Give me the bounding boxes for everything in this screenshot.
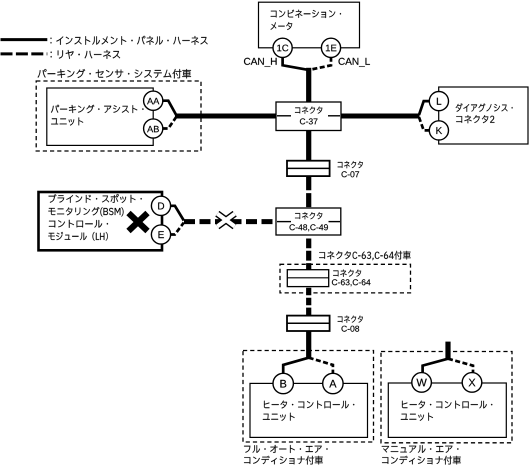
wire: C-48,C-49 to C-63,C-64 (thick dashed trunk) xyxy=(306,239,311,271)
legend line: rear harness (thick dashed) xyxy=(1,52,48,55)
wire: branch to pin B (solid thin) xyxy=(283,358,309,374)
wire: branch from pin E (dashed thin) xyxy=(170,223,183,235)
connector C-07 divider xyxy=(287,167,330,169)
connector C-37 label line 2 xyxy=(300,118,318,124)
connector C-08 box xyxy=(287,316,330,331)
heater control unit (full auto) label line 1 xyxy=(264,401,354,409)
connector C-37 box xyxy=(276,102,341,131)
combination meter label line 1 xyxy=(271,10,341,18)
pin circle AB xyxy=(144,119,163,138)
label: with manual air conditioner line 2 xyxy=(382,456,461,465)
heater control unit box (manual) xyxy=(388,383,506,437)
wire: branch to pin L (solid thin) xyxy=(419,101,430,115)
combination meter box xyxy=(259,2,360,48)
connector C-48,C-49 label line 1 xyxy=(295,212,322,219)
parking system dashed enclosure xyxy=(36,81,201,151)
wire: C-37 to C-07 (thick solid trunk) xyxy=(306,130,311,161)
wire stub inside C-37 (left) xyxy=(277,115,291,117)
BSM label line 2 xyxy=(48,207,123,216)
connector C-48,C-49 box xyxy=(276,208,341,235)
connector C-63,C-64 label line 2 xyxy=(332,279,371,286)
diagnosis connector label line 1 xyxy=(456,103,513,111)
parking assist unit box xyxy=(47,88,153,145)
wire: C-63,C-64 to C-08 (thick dashed trunk) xyxy=(306,288,311,316)
label: with parking sensor system xyxy=(38,69,191,78)
wire: CAN_L branch from pin 1E (dashed thin) xyxy=(310,57,331,70)
label: with manual air conditioner line 1 xyxy=(382,445,459,453)
connector C-63,C-64 divider xyxy=(287,277,328,279)
wire: branch from pin AA (solid thin) xyxy=(163,101,177,115)
pin label E xyxy=(159,231,164,238)
pin label AA xyxy=(147,98,159,104)
wire: stub to manual heater control split (thick solid) xyxy=(445,342,450,360)
wire stub inside C-48,C-49 (right) xyxy=(329,221,341,223)
connector C-08 divider xyxy=(287,322,330,324)
heater control unit (full auto) label line 2 xyxy=(263,413,295,421)
wire stub inside C-37 (right) xyxy=(328,115,340,117)
pin circle L xyxy=(429,92,448,111)
label: with full auto air conditioner line 2 xyxy=(244,456,323,465)
legend text: rear harness xyxy=(51,50,121,59)
connector C-48,C-49 label line 2 xyxy=(290,224,328,231)
connector C-07 label line 2 xyxy=(342,171,360,177)
wire: branch to pin W (solid thin) xyxy=(423,359,448,373)
no-connect mark X on BSM wire (white core) xyxy=(217,214,234,227)
connector C-63,C-64 label line 1 xyxy=(333,270,361,277)
pin label 1C xyxy=(277,45,288,52)
pin circle AA xyxy=(144,91,163,110)
pin circle 1E xyxy=(321,38,340,57)
manual A/C dashed enclosure xyxy=(381,352,512,443)
label CAN_L xyxy=(339,58,370,67)
wire: C-37 to diagnosis connector 2 (thick solid) xyxy=(341,114,420,119)
wire: branch to pin X (dashed thin) xyxy=(448,359,473,373)
diagnosis connector label line 2 xyxy=(456,115,494,123)
label: with full auto air conditioner line 1 xyxy=(244,445,328,453)
pin label W xyxy=(417,379,427,387)
heater control unit box (full auto) xyxy=(250,383,368,437)
wire: branch to pin A (dashed thin) xyxy=(309,358,333,374)
wire: branch from pin D (solid thin) xyxy=(170,206,183,221)
fault mark X (bold cross in BSM box) xyxy=(129,213,148,231)
BSM label line 3 xyxy=(49,220,108,228)
pin circle A xyxy=(323,373,343,393)
wire: CAN junction to C-37 (thick solid trunk) xyxy=(306,68,311,103)
legend line: instrument panel harness (thick solid) xyxy=(1,38,48,41)
connector C-37 label line 1 xyxy=(295,107,322,114)
connector C-08 label line 1 xyxy=(338,316,363,323)
connector C-07 box xyxy=(287,161,330,176)
C-63,C-64 dashed enclosure xyxy=(280,264,411,293)
pin circle K xyxy=(429,121,448,140)
pin circle 1C xyxy=(273,38,292,57)
BSM label line 4 xyxy=(48,232,108,241)
parking assist unit label line 1 xyxy=(51,105,144,113)
pin label 1E xyxy=(326,45,337,52)
pin circle E xyxy=(151,225,170,244)
connector C-63,C-64 box xyxy=(287,270,328,287)
connector C-07 label line 1 xyxy=(338,161,363,168)
pin label L xyxy=(437,98,441,105)
BSM label line 1 xyxy=(49,194,142,203)
wire: C-07 to C-48,C-49 (thick dashed trunk) xyxy=(306,176,311,208)
pin label A xyxy=(329,380,336,388)
heater control unit (manual) label line 1 xyxy=(402,401,492,409)
wire: parking assist to connector C-37 (thick solid) xyxy=(175,114,277,119)
legend text: instrument panel harness xyxy=(51,36,208,45)
wire: CAN_H branch from pin 1C (solid thin) xyxy=(283,57,308,70)
diagnosis connector 2 box xyxy=(439,87,528,144)
pin circle X xyxy=(462,373,482,393)
connector C-08 label line 2 xyxy=(342,326,360,332)
wire stub inside C-48,C-49 (left) xyxy=(277,221,291,223)
pin circle D xyxy=(151,196,170,215)
wire: BSM to connector C-48,C-49 (thick dashed) xyxy=(184,219,277,224)
no-connect mark X on BSM wire (black outline) xyxy=(217,214,234,227)
full auto A/C dashed enclosure xyxy=(243,351,374,443)
pin circle B xyxy=(273,373,293,393)
wire: branch to pin K (dashed thin) xyxy=(419,117,430,130)
label: with connectors C-63,C-64 xyxy=(319,251,411,260)
pin circle W xyxy=(412,373,432,393)
pin label X xyxy=(469,379,476,387)
blind spot monitoring (BSM) control module box (thick border) xyxy=(39,192,163,250)
heater control unit (manual) label line 2 xyxy=(401,413,433,421)
label CAN_H xyxy=(244,58,277,67)
pin label AB xyxy=(147,126,159,132)
combination meter label line 2 xyxy=(271,22,293,30)
wire: branch from pin AB (dashed thin) xyxy=(163,117,177,129)
wire: C-08 to heater control split (thick solid trunk) xyxy=(306,331,311,358)
pin label K xyxy=(436,127,442,134)
parking assist unit label line 2 xyxy=(51,118,83,126)
pin label B xyxy=(280,380,286,388)
pin label D xyxy=(158,203,164,210)
